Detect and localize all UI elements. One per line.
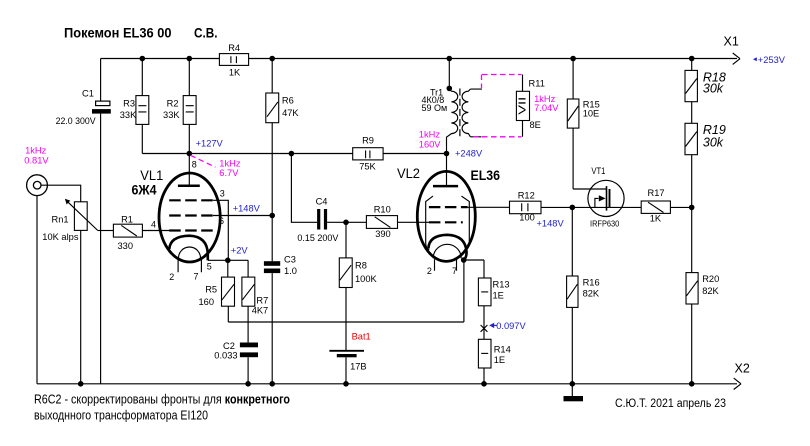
wire R10 to VL2 grid <box>398 221 430 223</box>
svg-text:10E: 10E <box>583 108 600 118</box>
input jack <box>27 175 48 196</box>
resistor R19 <box>691 155 693 273</box>
wire cathode pin5 to +2V node <box>208 259 248 261</box>
svg-text:R11: R11 <box>529 79 545 89</box>
svg-text:8: 8 <box>192 160 197 170</box>
VL1 heater arc <box>179 247 201 258</box>
svg-text:R7: R7 <box>256 295 268 305</box>
svg-text:+248V: +248V <box>455 149 483 159</box>
svg-text:0.097V: 0.097V <box>496 321 526 331</box>
svg-text:22.0 300V: 22.0 300V <box>56 116 97 126</box>
node dot Bat1 ground <box>343 381 349 387</box>
svg-text:4: 4 <box>151 220 156 230</box>
node dot Tr1 top bus <box>447 56 453 62</box>
wire pin6 g2 to screen node <box>213 215 272 217</box>
svg-text:47K: 47K <box>282 108 299 118</box>
svg-text:17В: 17В <box>350 362 367 372</box>
svg-text:X2: X2 <box>735 362 750 376</box>
svg-text:6Ж4: 6Ж4 <box>132 182 157 197</box>
node dot R3 top <box>140 56 146 62</box>
wire secondary to R11 <box>470 89 482 137</box>
svg-text:82K: 82K <box>702 286 719 296</box>
resistor R3 <box>141 59 143 154</box>
svg-text:Покемон EL36 00: Покемон EL36 00 <box>64 25 172 41</box>
node dot R2 top <box>187 56 193 62</box>
svg-text:С.Ю.Т. 2021 апрель 23: С.Ю.Т. 2021 апрель 23 <box>615 398 726 410</box>
wire R12 to VT1 <box>541 206 609 208</box>
wire R13 to R14 with measure point <box>483 306 485 340</box>
VL2 heater arc <box>433 244 461 258</box>
svg-text:R2: R2 <box>167 99 179 109</box>
battery Bat1 <box>329 350 364 352</box>
svg-text:R10: R10 <box>374 204 391 214</box>
resistor R5 <box>227 260 230 322</box>
wire R15 to VT1 gate <box>573 188 606 190</box>
svg-text:выходнного трансформатора EI12: выходнного трансформатора EI120 <box>34 409 208 423</box>
connector X1 arrow <box>733 53 740 64</box>
resistor R6 <box>271 59 273 262</box>
svg-text:C3: C3 <box>284 254 296 264</box>
wire R17 to divider <box>670 206 691 208</box>
VL2 heater pins 2 7 <box>435 259 457 271</box>
resistor R7 <box>247 260 249 342</box>
svg-text:1E: 1E <box>494 355 505 365</box>
tube VL1 <box>159 173 220 262</box>
svg-text:R4: R4 <box>228 43 240 53</box>
wire bottom bus <box>37 383 737 385</box>
svg-text:3: 3 <box>220 189 225 199</box>
resistor R11 load <box>522 75 524 137</box>
svg-text:8E: 8E <box>530 120 541 130</box>
resistor R15 <box>572 59 574 190</box>
svg-text:EL36: EL36 <box>471 168 501 183</box>
potentiometer Rn1 <box>74 202 87 231</box>
svg-text:330: 330 <box>118 241 134 251</box>
node +0.097V <box>489 323 494 328</box>
resistor R8 <box>345 222 347 350</box>
svg-text:7: 7 <box>452 266 457 276</box>
svg-text:0.033: 0.033 <box>214 350 237 360</box>
node dot R15 top bus <box>570 56 576 62</box>
svg-text:R5: R5 <box>205 284 217 294</box>
svg-text:1kHz: 1kHz <box>219 158 241 168</box>
resistor R10 <box>366 216 397 229</box>
svg-text:0.15 200V: 0.15 200V <box>297 233 339 243</box>
svg-text:6: 6 <box>219 216 224 226</box>
svg-text:R8: R8 <box>355 261 367 271</box>
svg-text:1E: 1E <box>493 291 504 301</box>
wire bus to Tr1 primary <box>448 59 450 89</box>
node dot R17 junction <box>689 205 695 211</box>
VL2 grid g1 row <box>429 221 463 223</box>
node dot VL1 anode <box>187 151 193 157</box>
svg-text:0.81V: 0.81V <box>24 156 49 166</box>
capacitor C2 <box>240 343 258 348</box>
node +253V <box>753 57 757 61</box>
svg-text:R13: R13 <box>493 280 510 290</box>
VL1 cathode <box>169 236 208 261</box>
svg-text:6.7V: 6.7V <box>219 168 239 178</box>
node dot VT1 source / R16 <box>570 205 576 211</box>
node dot R18 top bus <box>689 56 695 62</box>
connector X2 arrow <box>734 378 741 389</box>
resistor R13 <box>478 278 491 306</box>
svg-text:1K: 1K <box>229 67 241 77</box>
svg-text:1kHz: 1kHz <box>25 145 47 155</box>
svg-text:VT1: VT1 <box>591 166 605 176</box>
wire pin3 g3 jog to cathode <box>213 200 228 260</box>
svg-text:59 Ом: 59 Ом <box>422 103 448 113</box>
svg-text:R6: R6 <box>282 96 294 106</box>
measurement box magenta dashed <box>473 75 522 137</box>
svg-text:R20: R20 <box>702 274 719 284</box>
svg-text:R16: R16 <box>583 278 600 288</box>
svg-text:1kHz: 1kHz <box>419 130 441 140</box>
VL2 cathode <box>428 235 466 260</box>
wire Rn1 to ground bus <box>80 230 82 383</box>
VL1 grid g1 row <box>169 229 213 231</box>
svg-text:+148V: +148V <box>537 219 565 229</box>
svg-text:Bat1: Bat1 <box>352 332 371 342</box>
svg-text:R9: R9 <box>362 136 374 146</box>
node dot R20 ground <box>689 381 695 387</box>
svg-text:C4: C4 <box>316 196 328 206</box>
transformer Tr1 core <box>459 89 461 138</box>
node dot C3 ground <box>269 381 275 387</box>
svg-text:R1: R1 <box>121 214 133 224</box>
wire +127V line <box>142 153 446 155</box>
svg-text:7: 7 <box>194 272 199 282</box>
svg-text:7.04V: 7.04V <box>534 103 559 113</box>
node dot R8 branch <box>343 220 349 226</box>
svg-text:33K: 33K <box>163 110 180 120</box>
node dot C2 ground <box>245 381 251 387</box>
svg-text:R6C2 - скорректированы фронты: R6C2 - скорректированы фронты для конкре… <box>34 393 290 407</box>
svg-text:C1: C1 <box>82 89 94 99</box>
VL1 grid g3 row <box>169 199 213 201</box>
node dot screen R6/C3 <box>269 213 275 219</box>
svg-text:+148V: +148V <box>233 204 261 214</box>
resistor R16 <box>571 207 573 396</box>
svg-text:+253V: +253V <box>758 55 786 65</box>
ground symbol <box>564 396 584 401</box>
svg-text:82K: 82K <box>583 289 600 299</box>
svg-text:4K7: 4K7 <box>252 306 269 316</box>
tube VL2 <box>417 171 475 261</box>
svg-text:2: 2 <box>169 272 174 282</box>
svg-text:5: 5 <box>207 262 212 272</box>
capacitor C1 <box>100 59 102 384</box>
svg-text:VII: VII <box>517 97 529 115</box>
transformer Tr1 secondary winding <box>462 89 470 137</box>
svg-text:1.0: 1.0 <box>284 266 297 276</box>
wire jack down to ground bus <box>36 196 38 384</box>
resistor R2 <box>188 59 190 154</box>
svg-text:100K: 100K <box>355 274 378 284</box>
svg-text:+127V: +127V <box>196 139 224 149</box>
node dot R14 ground <box>481 381 487 387</box>
VL2 grid g2 row <box>429 206 468 208</box>
wire R14 to ground bus <box>483 368 485 384</box>
resistor R14 <box>478 339 491 368</box>
measurement 1kHz 6.7V with dashed pointer <box>191 155 216 167</box>
svg-text:X1: X1 <box>724 35 739 49</box>
wire VT1 to R17 <box>610 206 642 208</box>
VL2 inner envelope <box>426 196 433 250</box>
svg-text:R3: R3 <box>123 99 135 109</box>
svg-text:10K alps: 10K alps <box>42 232 79 242</box>
capacitor C4 <box>317 209 320 230</box>
resistor R17 <box>641 201 670 213</box>
resistor R1 <box>113 224 142 237</box>
VL1 heater pins 2 7 <box>178 259 201 273</box>
svg-text:30k: 30k <box>703 82 724 96</box>
wire cathode to R13 <box>464 260 484 278</box>
svg-text:1K: 1K <box>650 214 662 224</box>
resistor R9 <box>353 148 383 160</box>
capacitor C3 <box>264 261 280 266</box>
node dot VL2 cathode <box>461 257 467 263</box>
VL2 anode stem <box>446 154 448 187</box>
svg-text:75K: 75K <box>359 162 376 172</box>
svg-text:R12: R12 <box>518 191 535 201</box>
svg-text:VL1: VL1 <box>140 168 163 183</box>
resistor R18 <box>691 59 693 124</box>
resistor R4 <box>219 54 248 66</box>
wire feedback from R5 to VL2 cathode <box>228 260 464 322</box>
node dot R16 ground <box>570 381 576 387</box>
node dot R6 top <box>269 56 275 62</box>
svg-text:390: 390 <box>375 229 391 239</box>
wire R1 to VL1 grid pin4 <box>142 230 170 232</box>
wire wiper to R1 <box>98 230 114 232</box>
resistor R20 <box>691 304 693 384</box>
resistor R12 <box>510 201 542 214</box>
svg-text:VL2: VL2 <box>397 166 420 181</box>
wire jack to Rn1 <box>41 185 81 202</box>
node dot +2V <box>225 258 231 264</box>
wire top bus <box>101 58 737 60</box>
svg-text:R17: R17 <box>648 188 665 198</box>
svg-text:2: 2 <box>427 266 432 276</box>
svg-text:33K: 33K <box>120 110 137 120</box>
svg-text:160: 160 <box>199 297 215 307</box>
svg-text:IRFP630: IRFP630 <box>590 219 620 229</box>
node dot Rn1 ground <box>78 381 84 387</box>
svg-text:160V: 160V <box>419 140 442 150</box>
wire VL2 g2 to R12 <box>468 206 510 208</box>
wire to C4 <box>291 154 317 223</box>
node dot VL2 anode / Tr1 <box>444 151 450 157</box>
svg-text:30k: 30k <box>703 135 724 149</box>
svg-text:R14: R14 <box>494 345 511 355</box>
VL1 anode stem pin 8 <box>188 154 190 186</box>
VL1 grid g2 row <box>169 214 213 216</box>
node dot Tr1 primary top <box>447 86 453 92</box>
svg-text:+2V: +2V <box>231 245 249 255</box>
node dot C4 branch <box>289 151 295 157</box>
transistor VT1 MOSFET <box>588 180 624 216</box>
svg-text:100: 100 <box>519 212 535 222</box>
svg-text:Rn1: Rn1 <box>52 214 69 224</box>
svg-text:С.В.: С.В. <box>194 25 218 41</box>
transformer Tr1 primary winding <box>447 88 458 153</box>
